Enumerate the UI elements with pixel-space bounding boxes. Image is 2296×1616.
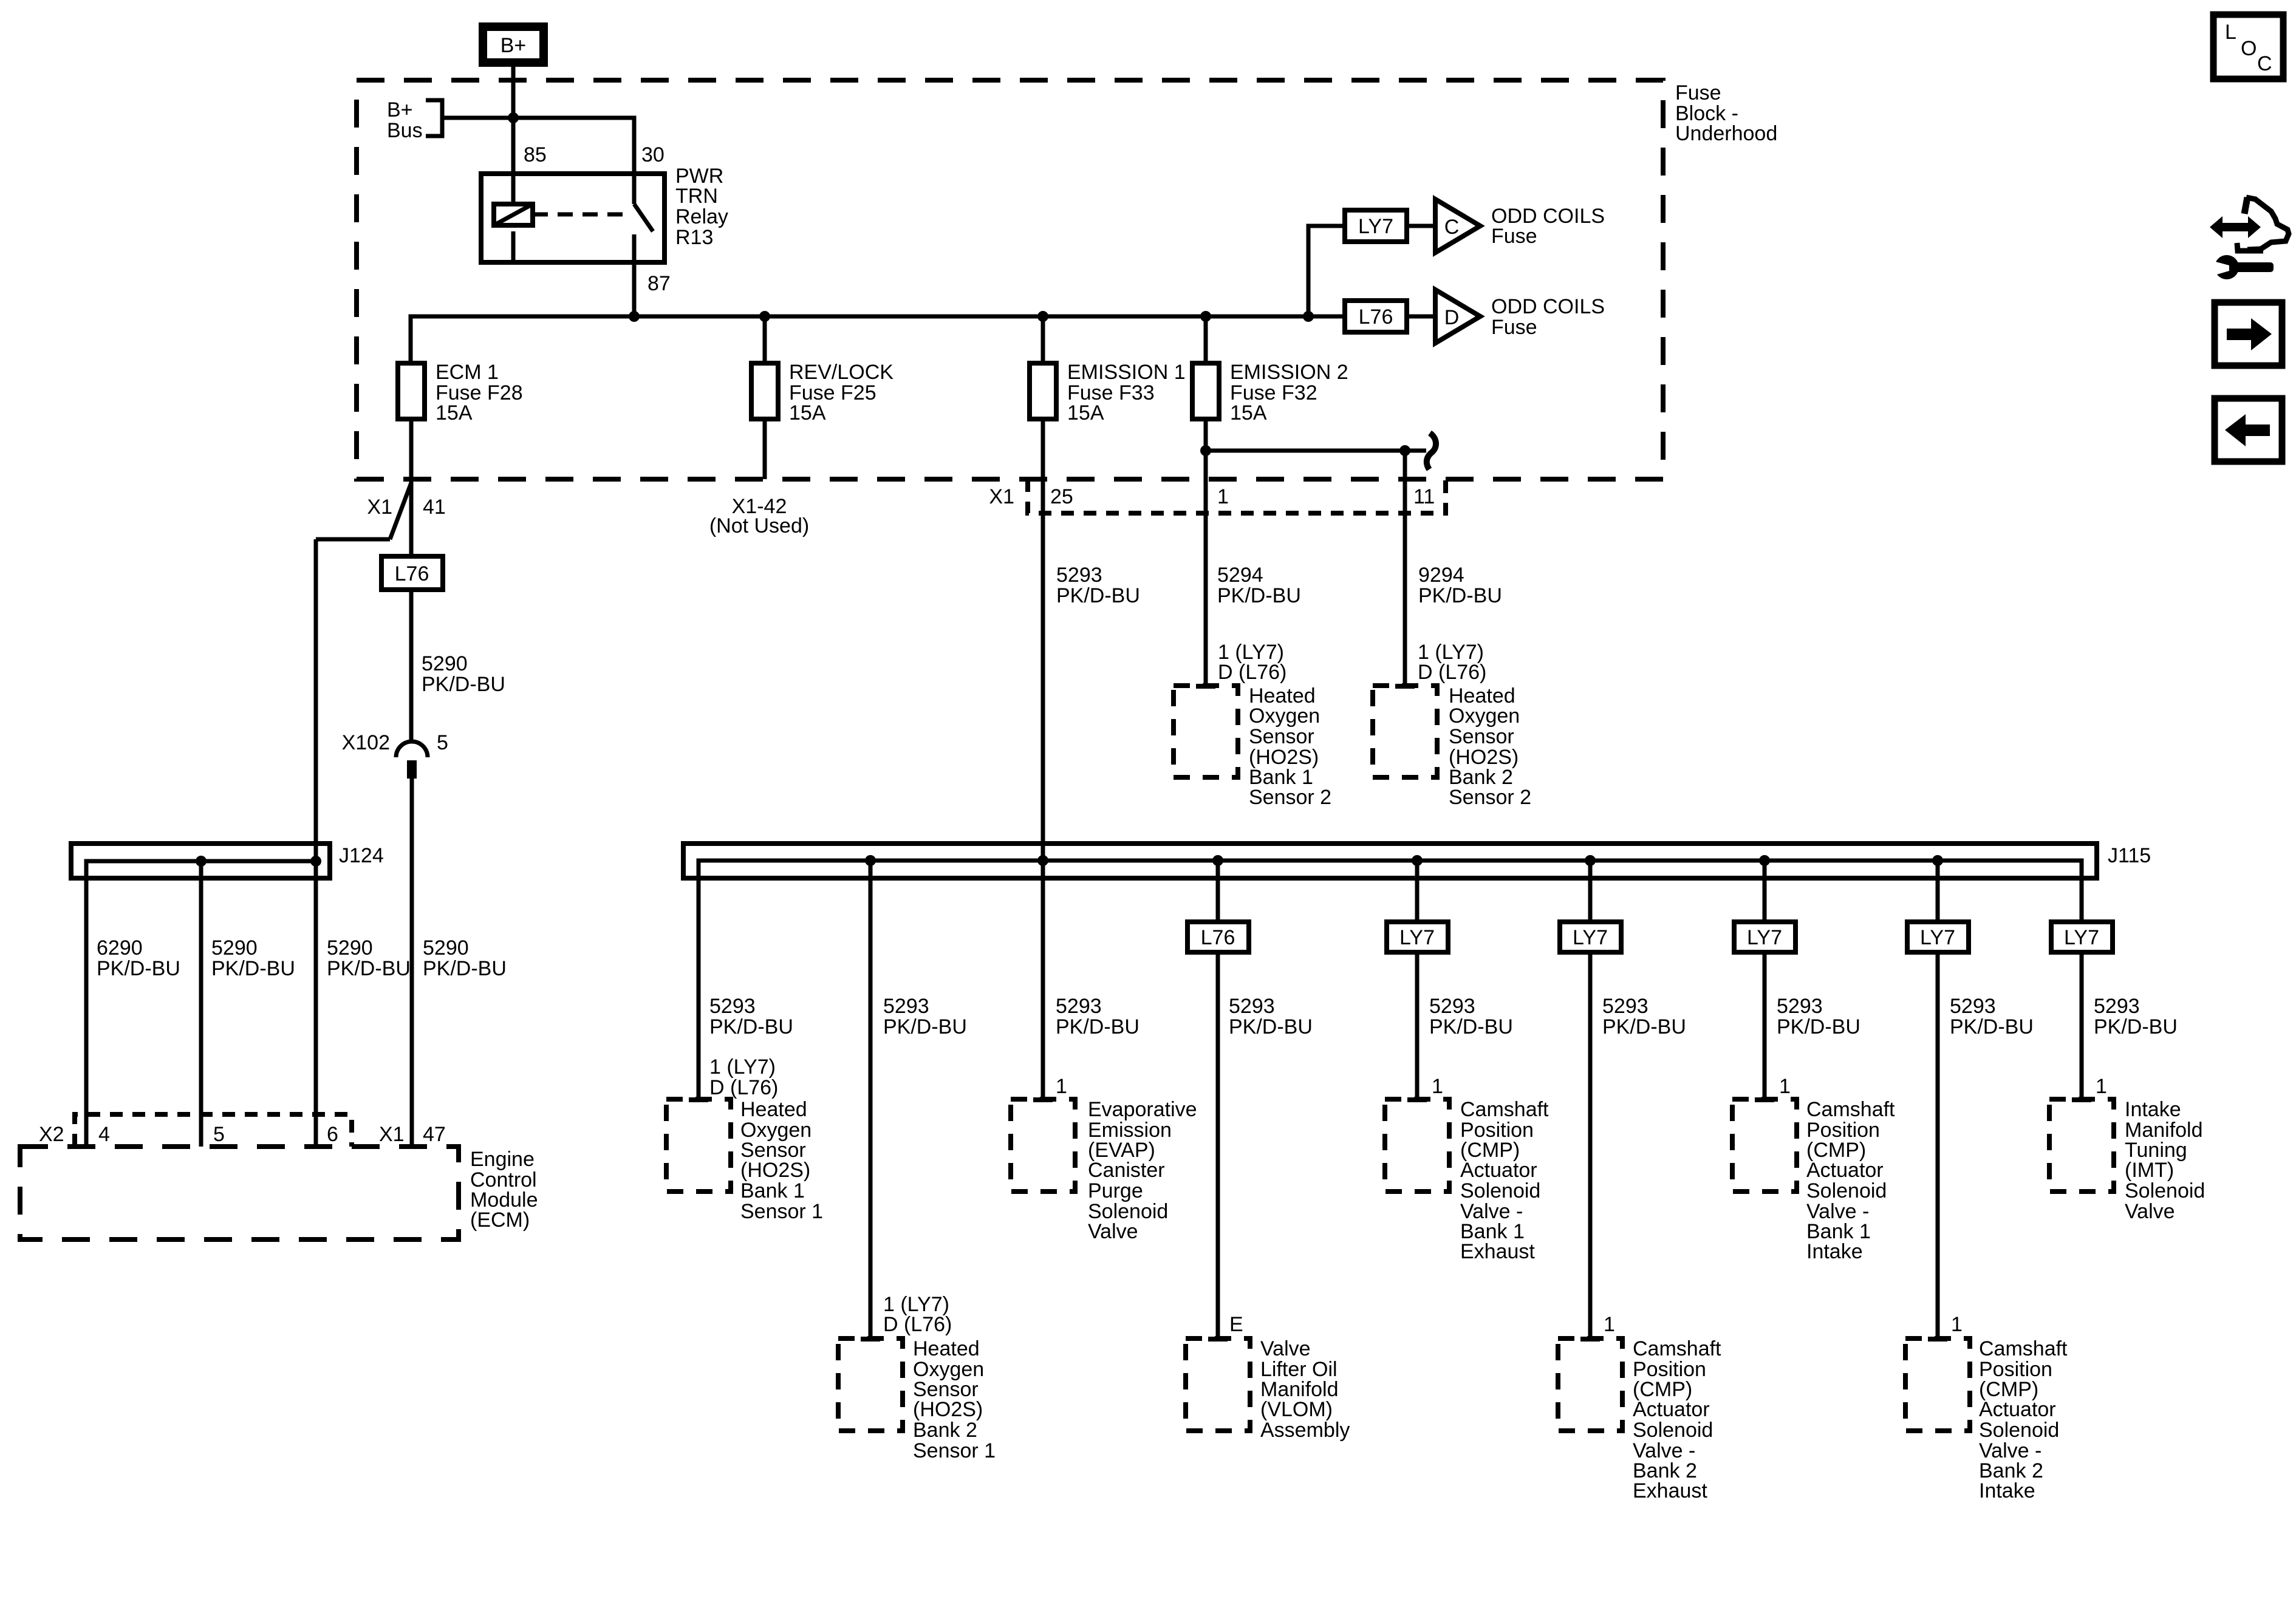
- svg-text:(Not Used): (Not Used): [709, 514, 809, 537]
- pin tick lower row x=1433: [861, 1337, 880, 1342]
- node fuse F32 tap: [1200, 311, 1211, 322]
- svg-text:6: 6: [327, 1123, 338, 1146]
- svg-text:1: 1: [1779, 1075, 1791, 1098]
- HO2S bank 2 sensor 1 component box: [838, 1338, 903, 1431]
- svg-text:(ECM): (ECM): [470, 1209, 530, 1232]
- CMP actuator solenoid valve bank 2 intake component box: [1905, 1338, 1970, 1431]
- pin tick lower row x=3190: [1928, 1337, 1947, 1342]
- svg-text:TRN: TRN: [675, 185, 718, 208]
- node J124 pin 6 tap: [310, 856, 321, 867]
- svg-text:C: C: [2257, 52, 2272, 75]
- svg-text:15A: 15A: [1067, 401, 1104, 424]
- svg-text:15A: 15A: [789, 401, 826, 424]
- node J124 pin 5 tap: [196, 856, 207, 867]
- wire J115 to CMP bank 1 intake: [1763, 861, 1767, 1099]
- node J115 tap x=3190: [1932, 855, 1943, 866]
- triangle D odd coils fuse: [1435, 290, 1480, 343]
- node coils riser tap: [1303, 311, 1314, 322]
- splice J124: [71, 844, 384, 878]
- svg-text:Canister: Canister: [1088, 1159, 1165, 1182]
- forward arrow box: [2215, 302, 2282, 366]
- svg-text:Actuator: Actuator: [1460, 1159, 1537, 1182]
- wire L76 tag to triangle D: [1407, 315, 1435, 319]
- svg-text:Sensor: Sensor: [1249, 725, 1314, 748]
- fuse F25 REV/LOCK: [751, 363, 778, 419]
- svg-text:Heated: Heated: [740, 1098, 807, 1121]
- svg-text:Bank 2: Bank 2: [913, 1419, 977, 1442]
- pin tick HO2S sensor 2 x=1985: [1196, 684, 1215, 689]
- wire relay pin 87 to bus: [632, 234, 637, 316]
- svg-text:Engine: Engine: [470, 1148, 535, 1171]
- svg-text:D (L76): D (L76): [1418, 661, 1486, 684]
- splice J115: [683, 844, 2151, 878]
- wire fuse F28 output circuit 5290: [409, 419, 414, 742]
- svg-text:D (L76): D (L76): [709, 1076, 778, 1099]
- wire circuit 5290 from X102 to ECM pin 47: [410, 779, 414, 1147]
- HO2S bank 2 sensor 2 component box: [1373, 686, 1437, 777]
- pin tick lower row x=2618: [1580, 1337, 1600, 1342]
- wire bus to fuse F32: [1204, 316, 1208, 363]
- svg-text:L76: L76: [1201, 926, 1235, 949]
- B+ bus bracket: [426, 100, 442, 136]
- svg-text:PK/D-BU: PK/D-BU: [423, 957, 507, 980]
- svg-text:87: 87: [647, 272, 671, 295]
- svg-text:Bank 1: Bank 1: [740, 1179, 805, 1202]
- pin tick upper row x=1150: [689, 1097, 708, 1102]
- wire riser to LY7 odd coils: [1308, 226, 1345, 316]
- tag LY7 x=2333: [1387, 922, 1448, 952]
- svg-text:PK/D-BU: PK/D-BU: [1056, 584, 1140, 607]
- svg-text:PK/D-BU: PK/D-BU: [1777, 1015, 1860, 1038]
- svg-text:Camshaft: Camshaft: [1460, 1098, 1549, 1121]
- svg-text:Camshaft: Camshaft: [1979, 1337, 2068, 1360]
- inline connector X102 pin 5: [342, 731, 448, 779]
- relay R13 PWR TRN box: [481, 174, 665, 262]
- wire branch to J124: [316, 539, 390, 1147]
- svg-text:PK/D-BU: PK/D-BU: [327, 957, 411, 980]
- svg-text:PK/D-BU: PK/D-BU: [1056, 1015, 1139, 1038]
- HO2S bank 1 sensor 2 component box: [1174, 686, 1238, 777]
- wire fuse F33 output circuit 5293 to J115: [1041, 419, 1045, 1099]
- hand adjustment icon with double arrow and wrench: [2207, 197, 2289, 279]
- svg-text:Fuse: Fuse: [1491, 316, 1537, 339]
- CMP actuator solenoid valve bank 1 exhaust component box: [1385, 1099, 1449, 1192]
- svg-text:EMISSION 1: EMISSION 1: [1067, 361, 1186, 384]
- svg-text:B+: B+: [501, 34, 527, 57]
- wire B+ feed down to relay coil pin 85: [511, 67, 516, 204]
- svg-text:PK/D-BU: PK/D-BU: [97, 957, 180, 980]
- svg-text:X1: X1: [379, 1123, 405, 1146]
- tag LY7 x=2905: [1734, 922, 1795, 952]
- pin tick lower row x=2005: [1208, 1337, 1228, 1342]
- fuse block underhood dashed border: [357, 80, 1663, 479]
- tag LY7 odd coils: [1345, 210, 1407, 242]
- node J115 tap x=2618: [1585, 855, 1596, 866]
- svg-text:Intake: Intake: [2125, 1098, 2181, 1121]
- svg-text:Sensor 2: Sensor 2: [1249, 786, 1331, 809]
- pin tick upper row x=3427: [2072, 1097, 2091, 1102]
- svg-text:L: L: [2225, 21, 2236, 44]
- svg-text:5293: 5293: [1429, 995, 1475, 1018]
- svg-text:Intake: Intake: [1979, 1479, 2035, 1502]
- svg-text:25: 25: [1050, 485, 1073, 508]
- svg-text:B+: B+: [387, 98, 413, 121]
- svg-text:Actuator: Actuator: [1633, 1398, 1710, 1421]
- svg-text:Valve: Valve: [1088, 1220, 1138, 1243]
- wire pin 11 down to HO2S bank 2 sensor 2: [1403, 451, 1407, 686]
- svg-text:Evaporative: Evaporative: [1088, 1098, 1197, 1121]
- svg-text:6290: 6290: [97, 936, 143, 960]
- wire break continuation symbol: [1427, 433, 1436, 469]
- svg-text:ECM 1: ECM 1: [436, 361, 499, 384]
- svg-text:Solenoid: Solenoid: [1806, 1179, 1887, 1202]
- svg-text:Valve: Valve: [1260, 1337, 1311, 1360]
- relay coil: [494, 204, 533, 262]
- svg-text:Solenoid: Solenoid: [1633, 1419, 1713, 1442]
- svg-text:PK/D-BU: PK/D-BU: [883, 1015, 967, 1038]
- svg-text:5294: 5294: [1217, 564, 1263, 587]
- VLOM assembly component box: [1186, 1338, 1250, 1431]
- svg-text:5293: 5293: [1056, 995, 1102, 1018]
- svg-text:1: 1: [2096, 1075, 2107, 1098]
- svg-text:15A: 15A: [436, 401, 473, 424]
- svg-text:41: 41: [423, 496, 446, 519]
- svg-text:Actuator: Actuator: [1979, 1398, 2056, 1421]
- svg-text:X102: X102: [342, 731, 390, 754]
- node fuse F25 tap: [759, 311, 770, 322]
- svg-text:Valve: Valve: [2125, 1200, 2175, 1223]
- back arrow box: [2215, 398, 2282, 462]
- tag L76 circuit 5290: [381, 556, 443, 590]
- svg-text:PK/D-BU: PK/D-BU: [1602, 1015, 1686, 1038]
- tag LY7 x=3427: [2051, 922, 2113, 952]
- svg-text:5290: 5290: [327, 936, 373, 960]
- svg-text:Assembly: Assembly: [1260, 1419, 1350, 1442]
- svg-text:EMISSION 2: EMISSION 2: [1230, 361, 1348, 384]
- svg-text:Exhaust: Exhaust: [1633, 1479, 1707, 1502]
- wire J124 to ECM pin 5: [199, 861, 203, 1147]
- svg-text:Oxygen: Oxygen: [1449, 704, 1520, 728]
- relay dashed actuation link: [533, 213, 627, 217]
- tag L76 odd coils: [1345, 301, 1407, 332]
- svg-text:(VLOM): (VLOM): [1260, 1398, 1333, 1421]
- wire J115 to VLOM: [1216, 861, 1220, 1338]
- svg-text:Actuator: Actuator: [1806, 1159, 1884, 1182]
- wire J115 to CMP bank 2 exhaust: [1588, 861, 1593, 1338]
- wire branch to pin 11 circuit 9294: [1206, 449, 1426, 453]
- node fuse F33 tap: [1037, 311, 1048, 322]
- svg-text:E: E: [1229, 1313, 1243, 1336]
- svg-text:J124: J124: [339, 844, 384, 867]
- fuse F33 EMISSION 1: [1030, 363, 1056, 419]
- svg-text:5293: 5293: [1602, 995, 1649, 1018]
- svg-text:PK/D-BU: PK/D-BU: [1950, 1015, 2034, 1038]
- HO2S bank 1 sensor 1 component box: [666, 1099, 731, 1192]
- node at B+ junction: [508, 112, 519, 123]
- fuse F28 ECM 1: [398, 363, 425, 419]
- EVAP canister purge solenoid valve component box: [1011, 1099, 1075, 1192]
- pin tick upper row x=1717: [1033, 1097, 1053, 1102]
- svg-text:1: 1: [1604, 1313, 1615, 1336]
- svg-text:5293: 5293: [709, 995, 756, 1018]
- node J115 tap x=2905: [1759, 855, 1770, 866]
- wire bus to fuse F33: [1041, 316, 1045, 363]
- svg-text:LY7: LY7: [2064, 926, 2099, 949]
- wire J115 to CMP bank 1 exhaust: [1415, 861, 1420, 1099]
- svg-text:1: 1: [1217, 485, 1229, 508]
- LOC legend box: [2213, 15, 2283, 79]
- svg-text:R13: R13: [675, 226, 713, 249]
- svg-text:Relay: Relay: [675, 205, 728, 228]
- svg-text:L76: L76: [1359, 305, 1393, 329]
- svg-text:47: 47: [423, 1123, 446, 1146]
- svg-text:X2: X2: [39, 1123, 64, 1146]
- svg-text:Heated: Heated: [913, 1337, 980, 1360]
- connector X2 dashed box: [75, 1114, 352, 1147]
- wire node to relay pin 30: [513, 118, 634, 204]
- svg-text:5290: 5290: [211, 936, 258, 960]
- node pin 87 on bus: [629, 311, 640, 322]
- node J115 tap x=2005: [1212, 855, 1223, 866]
- svg-text:Underhood: Underhood: [1675, 122, 1777, 145]
- svg-text:Camshaft: Camshaft: [1633, 1337, 1721, 1360]
- svg-text:PK/D-BU: PK/D-BU: [422, 673, 505, 696]
- svg-text:REV/LOCK: REV/LOCK: [789, 361, 893, 384]
- svg-text:(HO2S): (HO2S): [913, 1398, 983, 1421]
- svg-text:5290: 5290: [422, 652, 468, 675]
- svg-text:5290: 5290: [423, 936, 469, 960]
- svg-text:1: 1: [1056, 1075, 1067, 1098]
- svg-text:LY7: LY7: [1573, 926, 1608, 949]
- svg-text:1 (LY7): 1 (LY7): [709, 1055, 776, 1079]
- wire B+ bus to node: [442, 116, 513, 120]
- svg-text:Intake: Intake: [1806, 1240, 1863, 1263]
- ECM engine control module box: [20, 1147, 459, 1239]
- svg-text:85: 85: [524, 143, 547, 166]
- svg-text:(HO2S): (HO2S): [740, 1159, 810, 1182]
- svg-text:(IMT): (IMT): [2125, 1159, 2174, 1182]
- svg-text:ODD COILS: ODD COILS: [1491, 295, 1605, 318]
- svg-text:5293: 5293: [1056, 564, 1102, 587]
- svg-text:5293: 5293: [883, 995, 929, 1018]
- CMP actuator solenoid valve bank 2 exhaust component box: [1558, 1338, 1622, 1431]
- CMP actuator solenoid valve bank 1 intake component box: [1732, 1099, 1797, 1192]
- svg-text:LY7: LY7: [1920, 926, 1955, 949]
- svg-text:15A: 15A: [1230, 401, 1267, 424]
- svg-text:Solenoid: Solenoid: [2125, 1179, 2205, 1202]
- svg-text:30: 30: [641, 143, 665, 166]
- pin tick upper row x=2905: [1755, 1097, 1774, 1102]
- svg-text:5293: 5293: [1950, 995, 1996, 1018]
- svg-text:D (L76): D (L76): [883, 1313, 952, 1336]
- svg-text:X1: X1: [367, 496, 392, 519]
- svg-text:PK/D-BU: PK/D-BU: [2094, 1015, 2178, 1038]
- node J115 tap x=1717: [1037, 855, 1048, 866]
- svg-text:PK/D-BU: PK/D-BU: [1217, 584, 1301, 607]
- svg-text:5293: 5293: [2094, 995, 2140, 1018]
- svg-text:Fuse: Fuse: [1675, 81, 1721, 104]
- fuse F32 EMISSION 2: [1192, 363, 1219, 419]
- splice J115 internal bus with end drops: [699, 861, 2082, 1099]
- svg-text:Sensor 2: Sensor 2: [1449, 786, 1531, 809]
- svg-text:Solenoid: Solenoid: [1979, 1419, 2059, 1442]
- svg-text:D (L76): D (L76): [1218, 661, 1286, 684]
- pin tick HO2S sensor 2 x=2313: [1395, 684, 1415, 689]
- wire fuse F25 output X1-42: [763, 419, 767, 479]
- svg-text:D: D: [1444, 306, 1460, 329]
- wire bus to fuse F25: [763, 316, 767, 363]
- splice branch diagonal at X1 pin 41: [390, 483, 411, 539]
- svg-text:L76: L76: [395, 562, 429, 585]
- svg-text:5293: 5293: [1229, 995, 1275, 1018]
- tag LY7 x=2618: [1560, 922, 1621, 952]
- power symbol B+: [483, 27, 544, 63]
- svg-text:LY7: LY7: [1358, 215, 1393, 238]
- IMT solenoid valve component box: [2049, 1099, 2114, 1192]
- svg-text:PK/D-BU: PK/D-BU: [1418, 584, 1502, 607]
- svg-text:LY7: LY7: [1399, 926, 1435, 949]
- wire J115 to CMP bank 2 intake: [1936, 861, 1940, 1338]
- svg-text:LY7: LY7: [1747, 926, 1782, 949]
- svg-text:O: O: [2241, 37, 2257, 60]
- node J115 tap x=1433: [865, 855, 876, 866]
- tag L76 x=2005: [1187, 922, 1249, 952]
- svg-text:PK/D-BU: PK/D-BU: [709, 1015, 793, 1038]
- svg-text:Purge: Purge: [1088, 1179, 1143, 1202]
- svg-text:1: 1: [1432, 1075, 1443, 1098]
- node J115 tap x=2333: [1412, 855, 1423, 866]
- svg-text:1: 1: [1951, 1313, 1963, 1336]
- svg-text:Camshaft: Camshaft: [1806, 1098, 1895, 1121]
- main bus wire from relay 87: [411, 316, 1345, 363]
- wire fuse F32 output circuit 5294: [1204, 419, 1208, 686]
- svg-text:Fuse: Fuse: [1491, 225, 1537, 248]
- svg-text:Sensor 1: Sensor 1: [913, 1439, 996, 1462]
- svg-text:Exhaust: Exhaust: [1460, 1240, 1535, 1263]
- triangle C odd coils fuse: [1435, 199, 1480, 253]
- svg-text:9294: 9294: [1418, 564, 1464, 587]
- svg-text:PK/D-BU: PK/D-BU: [1429, 1015, 1513, 1038]
- svg-text:5: 5: [213, 1123, 225, 1146]
- wire LY7 tag to triangle C: [1407, 224, 1435, 228]
- svg-text:PK/D-BU: PK/D-BU: [211, 957, 295, 980]
- svg-text:C: C: [1444, 216, 1460, 239]
- svg-text:PK/D-BU: PK/D-BU: [1229, 1015, 1313, 1038]
- svg-text:5: 5: [437, 731, 448, 754]
- connector X1 dashed box pins 25 1 11: [1028, 479, 1446, 513]
- splice J124 internal bus and pin 4 drop: [86, 861, 316, 1147]
- svg-text:Bus: Bus: [387, 119, 423, 142]
- svg-text:5293: 5293: [1777, 995, 1823, 1018]
- svg-text:J115: J115: [2108, 844, 2151, 867]
- svg-text:Solenoid: Solenoid: [1460, 1179, 1540, 1202]
- svg-text:Sensor: Sensor: [1449, 725, 1514, 748]
- relay switch contact: [634, 204, 653, 231]
- svg-text:X1: X1: [989, 485, 1014, 508]
- wire J115 to HO2S bank 2 sensor 1: [869, 861, 873, 1338]
- pin tick upper row x=2333: [1407, 1097, 1427, 1102]
- svg-text:Sensor 1: Sensor 1: [740, 1200, 823, 1223]
- svg-text:Oxygen: Oxygen: [1249, 704, 1320, 728]
- tag LY7 x=3190: [1907, 922, 1969, 952]
- svg-text:4: 4: [98, 1123, 110, 1146]
- svg-text:11: 11: [1413, 485, 1435, 508]
